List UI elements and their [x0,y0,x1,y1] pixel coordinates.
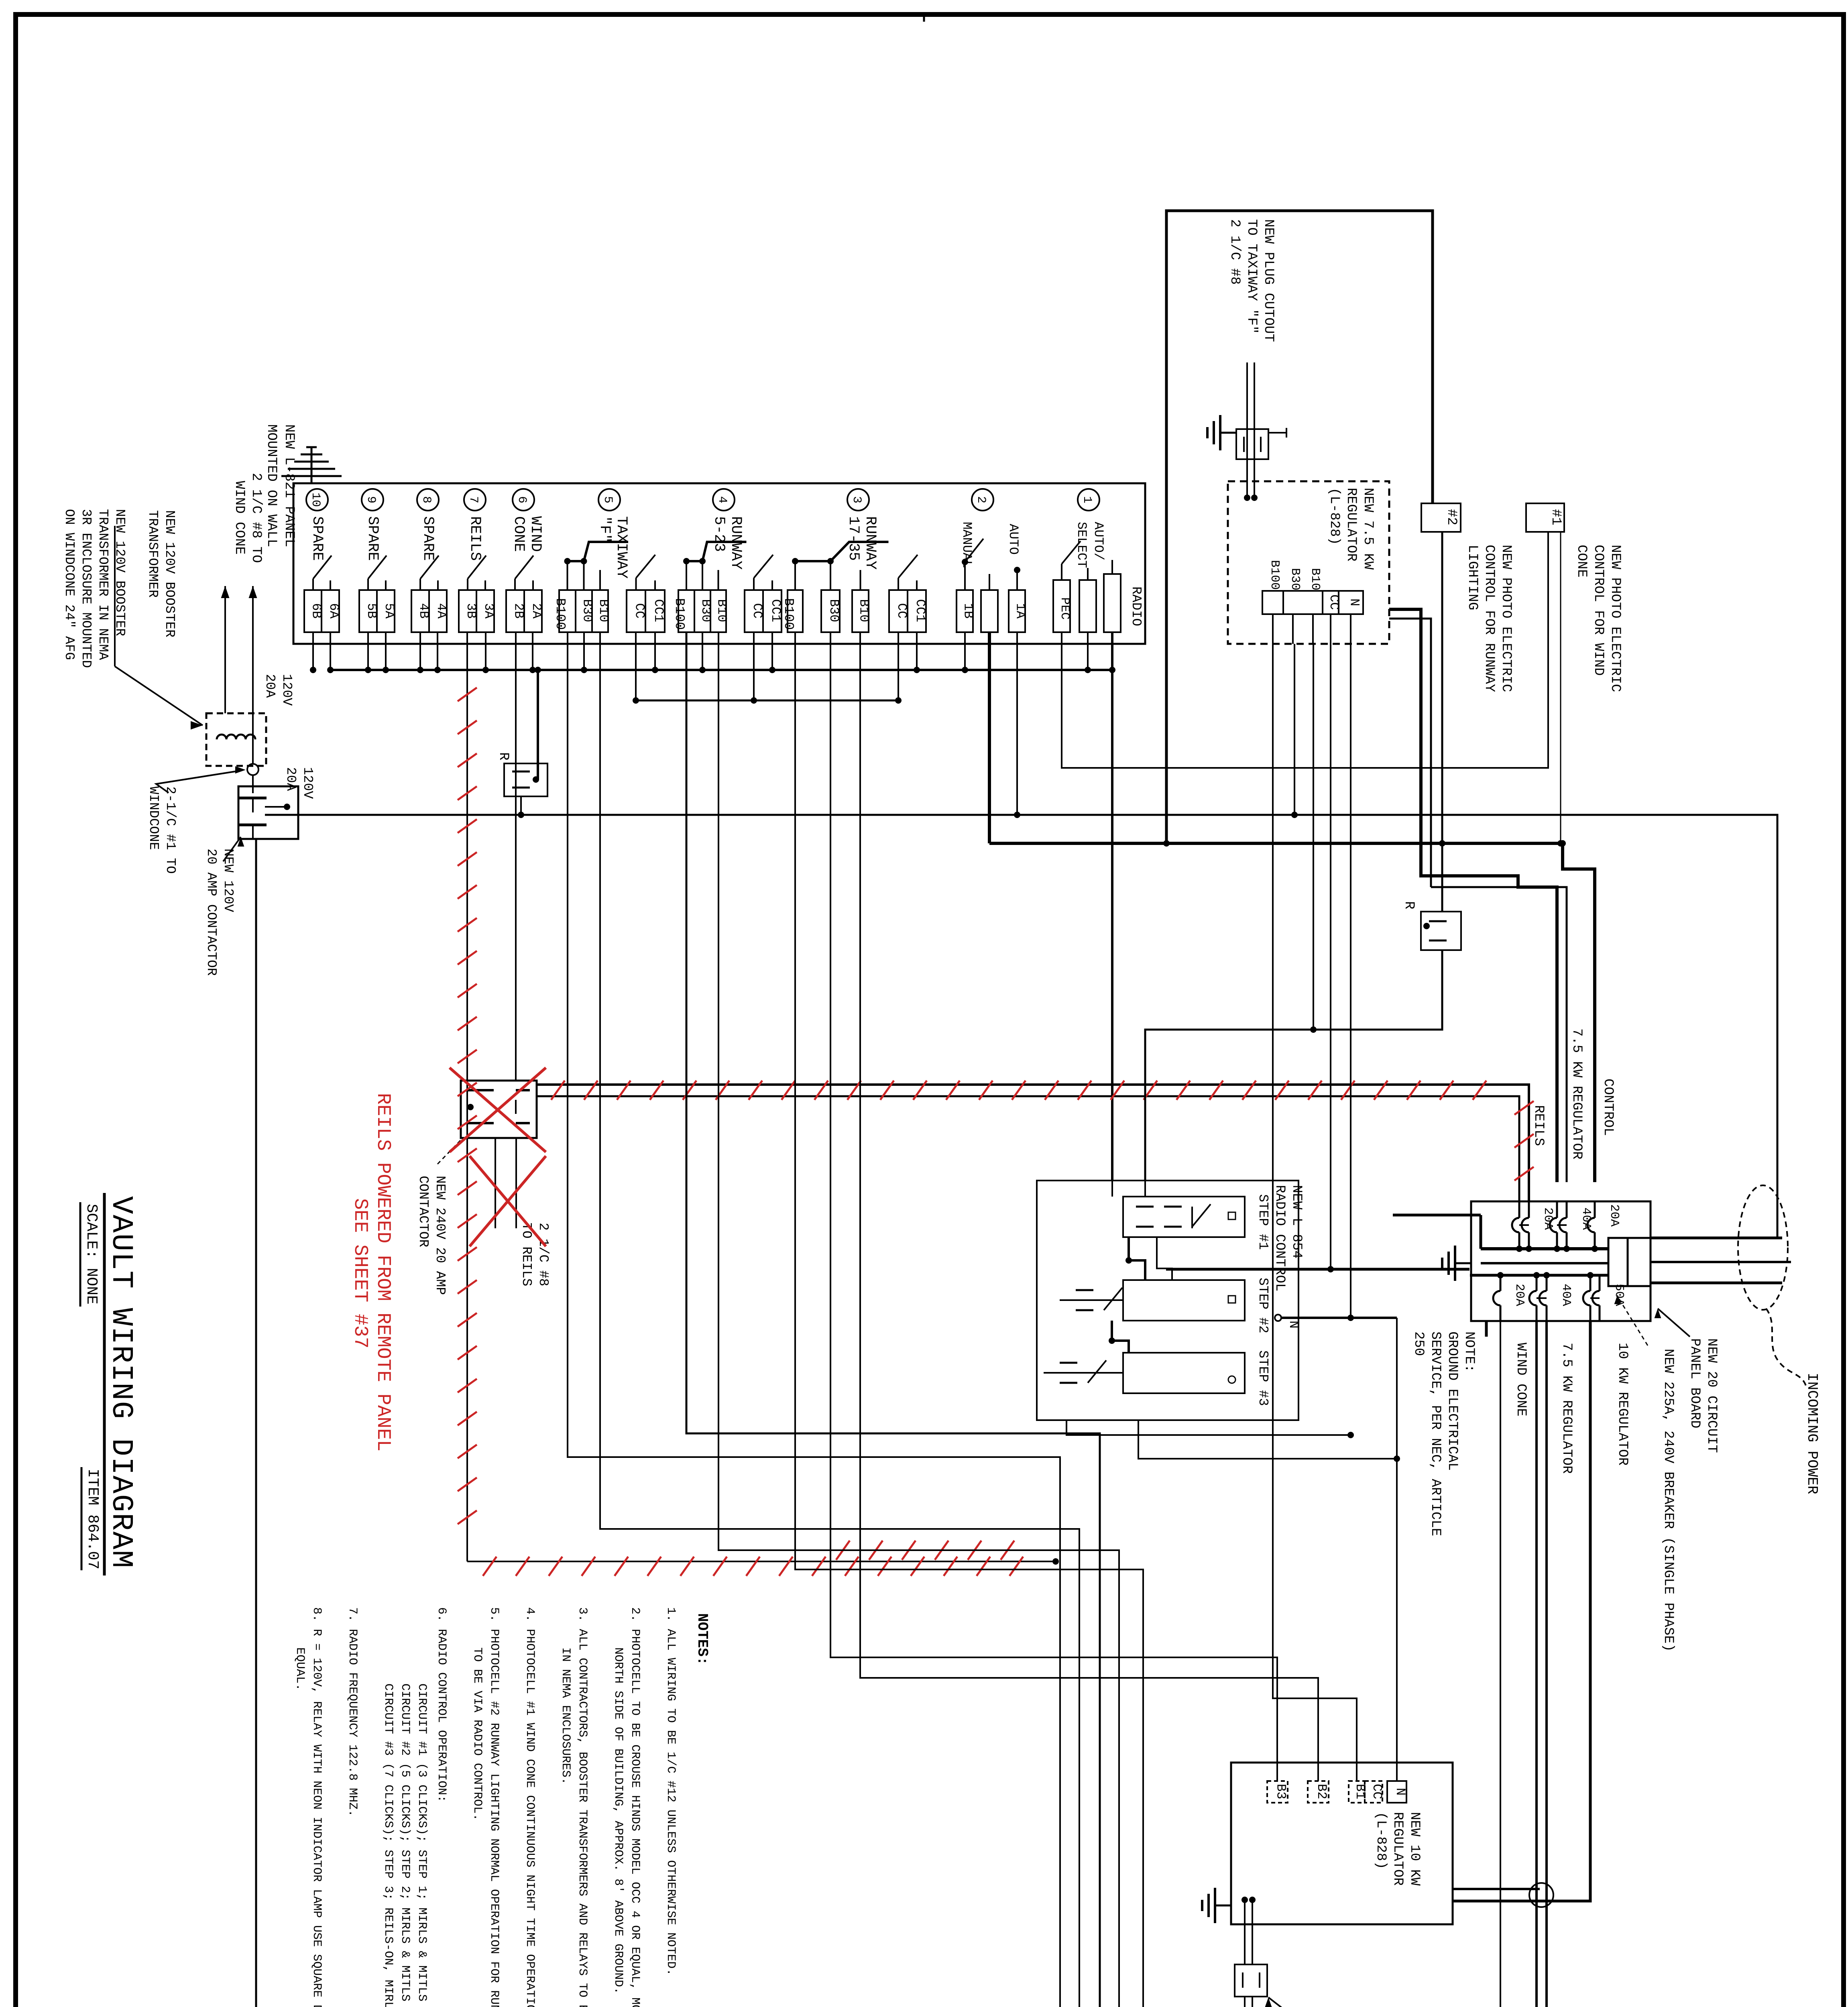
1A drop to 120V bus [1016,632,1018,815]
svg-text:120V: 120V [300,767,315,799]
svg-text:ON WINDCONE 24" AFG: ON WINDCONE 24" AFG [62,509,77,660]
step 3 contacts [1060,1362,1077,1364]
svg-text:B10: B10 [857,599,871,623]
svg-text:20 AMP CONTACTOR: 20 AMP CONTACTOR [204,849,219,976]
wire: runway17-35 B30 to 10KW B3 [830,632,1277,1781]
step 2 relay box [1123,1280,1245,1321]
svg-text:6: 6 [515,496,529,503]
svg-text:4: 4 [715,496,729,503]
10KW terminal B2 [1308,1781,1329,1803]
wire: taxiway B100 to bottom regulator [568,632,1060,2007]
svg-text:CONE: CONE [1574,545,1589,578]
svg-text:7.5 KW REGULATOR: 7.5 KW REGULATOR [1569,1028,1584,1159]
svg-text:STEP #2: STEP #2 [1256,1278,1270,1333]
svg-text:4A: 4A [434,603,449,619]
photocell #2 box [1421,503,1461,532]
svg-text:TO BE VIA RADIO CONTROL.: TO BE VIA RADIO CONTROL. [470,1647,484,1821]
svg-text:250: 250 [1411,1331,1426,1356]
svg-text:(L-828): (L-828) [1327,488,1342,545]
radio control enclosure [1037,1181,1298,1420]
svg-text:ITEM 864.07: ITEM 864.07 [84,1469,101,1569]
top feeder rectangle [1166,211,1433,843]
svg-text:20A: 20A [283,767,298,791]
svg-text:17-35: 17-35 [845,516,862,561]
wire: runway5-23 B100 to bottom regulator [686,632,1100,2007]
svg-text:SPARE: SPARE [309,516,326,561]
fold mark top [923,14,925,22]
windcone feed arrows [224,586,226,713]
svg-text:CONTACTOR: CONTACTOR [416,1176,431,1247]
svg-text:REILS: REILS [1531,1105,1546,1146]
red hatch: REILS vertical [458,688,477,701]
svg-text:GROUND ELECTRICAL: GROUND ELECTRICAL [1445,1331,1460,1471]
cutout arrows down [1244,1997,1246,2007]
red hatch: remote panel bus [551,1081,565,1100]
svg-text:INCOMING POWER: INCOMING POWER [1804,1373,1820,1494]
svg-text:IN NEMA ENCLOSURES.: IN NEMA ENCLOSURES. [559,1647,572,1785]
wind cone circuit to bottom bus [1500,1321,1501,2007]
svg-text:SCALE: NONE: SCALE: NONE [83,1204,100,1305]
svg-text:7. RADIO FREQUENCY 122.8 MHZ.: 7. RADIO FREQUENCY 122.8 MHZ. [346,1607,359,1817]
svg-text:TRANSFORMER IN NEMA: TRANSFORMER IN NEMA [96,509,110,660]
photocell #1 aux wire [1560,532,1561,843]
svg-text:CONTROL FOR RUNWAY: CONTROL FOR RUNWAY [1482,545,1497,692]
leader to node circle [156,771,240,793]
svg-text:NEW 7.5 KW: NEW 7.5 KW [1360,488,1376,570]
svg-text:20A: 20A [1512,1284,1526,1306]
svg-text:6. RADIO CONTROL OPERATION:: 6. RADIO CONTROL OPERATION: [435,1607,448,1802]
bus under panel (B-side) [332,669,1112,671]
svg-text:R: R [496,752,511,760]
main 120V bus from contactor [265,806,287,808]
svg-text:TO REILS: TO REILS [519,1223,534,1286]
svg-text:2A: 2A [529,603,544,619]
10KW cutout wires down [1244,1900,1246,1964]
svg-text:CIRCUIT #1 (3 CLICKS); STEP 1: CIRCUIT #1 (3 CLICKS); STEP 1; MIRLS & M… [415,1683,429,2007]
2B wire to REILS contactor [515,632,517,1081]
control bus drop (col2 center) [988,632,991,843]
incoming power squiggle [1766,1309,1806,1387]
red X over contactor [450,1068,546,1152]
red X over REILS label [470,1156,546,1246]
wire: photocell 2 to relay R [1441,843,1443,912]
wire: regulator B30 to 120V bus [1294,644,1295,815]
svg-text:REILS: REILS [466,516,483,561]
booster transformer box [206,713,266,766]
svg-text:1: 1 [1080,496,1094,503]
svg-text:2 1/C #8 TO: 2 1/C #8 TO [248,473,264,563]
red hatch: REILS drop at panel board [1514,1101,1534,1115]
svg-text:STEP #1: STEP #1 [1256,1194,1270,1250]
10KW terminals B1/CC [1349,1781,1365,1803]
svg-text:NEW PHOTO ELECTRIC: NEW PHOTO ELECTRIC [1498,545,1514,692]
breaker 40A (7.5KW bottom) [1536,1275,1538,1291]
panel breaker column 1 (AUTO/SELECT) [1078,489,1099,511]
svg-text:8: 8 [419,496,433,503]
svg-text:REILS POWERED FROM REMOTE PANE: REILS POWERED FROM REMOTE PANEL [372,1093,394,1451]
svg-text:N: N [1347,598,1362,606]
svg-text:B2: B2 [1314,1784,1329,1799]
svg-text:CC1: CC1 [768,599,783,623]
wire: runway17-35 B10 to 10KW B2 [860,632,1318,1781]
svg-text:PEC: PEC [1058,597,1072,620]
step 1 relay box [1123,1197,1245,1237]
svg-text:9: 9 [364,496,378,503]
panel breaker column 9 (SPARE) [362,489,383,511]
left long vertical to bottom bus (windcone neutral) [255,839,257,2007]
svg-text:CONTROL: CONTROL [1600,1079,1616,1136]
REILS wire from 3B [466,632,468,1561]
photocell #1 output to PEC [1062,532,1548,768]
svg-text:REGULATOR: REGULATOR [1343,488,1359,562]
svg-text:TO TAXIWAY "F": TO TAXIWAY "F" [1244,219,1259,334]
svg-text:CC: CC [632,603,647,619]
svg-text:2-1/C #1 TO: 2-1/C #1 TO [163,786,178,874]
svg-text:3A: 3A [481,603,496,619]
svg-text:8. R = 120V, RELAY WITH NEON I: 8. R = 120V, RELAY WITH NEON INDICATOR L… [310,1607,324,2007]
120V 20 amp contactor box [238,786,298,839]
svg-text:3R ENCLOSURE MOUNTED: 3R ENCLOSURE MOUNTED [79,509,94,668]
leader to booster transformer [114,526,116,666]
svg-text:20A: 20A [1607,1204,1621,1227]
RADIO drop to radio control [1111,632,1113,1181]
conduit junction circle [1529,1883,1553,1907]
svg-text:NEW L-821 PANEL: NEW L-821 PANEL [281,424,297,547]
svg-text:REGULATOR: REGULATOR [1390,1812,1405,1886]
svg-text:10: 10 [309,493,322,507]
wire: regulator CC to radio output [1330,644,1331,1269]
plug cutout box (taxiway F) [1236,429,1268,459]
incoming power lines [1651,1237,1782,1240]
svg-text:7: 7 [466,496,480,503]
10KW ground [1202,1888,1231,1923]
wire: regulator B10 to relay circuit [1313,644,1314,1030]
svg-text:RADIO CONTROL: RADIO CONTROL [1272,1185,1287,1291]
svg-text:20A: 20A [263,674,277,698]
svg-text:CONTROL FOR WIND: CONTROL FOR WIND [1591,545,1606,676]
step 2 contacts [1076,1289,1093,1291]
incoming feed bars [1481,1262,1608,1264]
wire: radio step 3 output [1138,1420,1397,1459]
svg-text:WIND CONE: WIND CONE [232,481,247,555]
svg-text:#1: #1 [1548,509,1563,525]
svg-text:LIGHTING: LIGHTING [1465,545,1480,610]
svg-text:WINDCONE: WINDCONE [146,786,161,850]
svg-text:TAXIWAY: TAXIWAY [613,516,630,578]
svg-text:NEW PHOTO ELECTRIC: NEW PHOTO ELECTRIC [1608,545,1623,692]
panel ground electrode [1442,1246,1471,1281]
svg-text:EQUAL.: EQUAL. [293,1647,307,1691]
top bus bar [1481,1247,1608,1250]
wire: runway5-23 B10 to bottom regulator [718,632,1119,2007]
svg-text:NEW 225A, 240V BREAKER (SINGLE: NEW 225A, 240V BREAKER (SINGLE PHASE) [1661,1349,1676,1652]
svg-text:SPARE: SPARE [419,516,436,561]
svg-text:SEE SHEET #37: SEE SHEET #37 [349,1198,371,1348]
svg-text:R: R [1401,901,1417,909]
svg-text:1. ALL WIRING TO BE 1/C #12 UN: 1. ALL WIRING TO BE 1/C #12 UNLESS OTHER… [664,1607,678,1976]
leader to contactor [223,837,241,861]
node circle below transformer [247,764,258,775]
wire: regulator N down [1350,644,1351,1318]
svg-text:SPARE: SPARE [364,516,381,561]
panel breaker column 10 (SPARE) [306,489,328,511]
breaker 40A (7.5KW regulator) [1556,1201,1558,1218]
svg-text:AUTO: AUTO [1006,524,1021,555]
svg-text:RADIO: RADIO [1129,586,1144,626]
CC drops to CC bus [635,632,637,700]
bus under panel (CC-side) [634,700,898,702]
radio control N node [1275,1315,1281,1321]
plug cutout (R/W 17-35) [1235,1964,1267,1997]
svg-text:5: 5 [601,496,615,503]
breaker 20A (control) [1594,1201,1596,1218]
svg-text:B100: B100 [781,598,796,630]
svg-text:TRANSFORMER: TRANSFORMER [145,510,160,598]
svg-text:WIND CONE: WIND CONE [1513,1343,1528,1417]
svg-text:B10: B10 [714,599,729,623]
svg-text:B30: B30 [826,599,841,623]
svg-text:NEW PLUG CUTOUT: NEW PLUG CUTOUT [1261,219,1276,342]
wire: radio N to 10KW N [1396,1318,1398,1781]
svg-text:2: 2 [974,496,988,503]
svg-text:40A: 40A [1559,1284,1573,1306]
svg-text:CC1: CC1 [651,599,666,623]
panel breaker column 7 (REILS) [464,489,486,511]
svg-text:NORTH SIDE OF BUILDING, APPROX: NORTH SIDE OF BUILDING, APPROX. 8' ABOVE… [611,1647,625,1994]
svg-text:2 1/C #8: 2 1/C #8 [1227,219,1242,285]
10KW regulator box [1231,1763,1453,1924]
breaker 20A (wind cone) [1500,1275,1502,1291]
svg-text:NEW 120V BOOSTER: NEW 120V BOOSTER [162,510,177,637]
svg-text:N: N [1393,1788,1408,1795]
svg-text:B100: B100 [672,598,687,630]
breaker 20A (REILS) [1518,1201,1520,1218]
radio control output to panel [1166,1268,1469,1271]
svg-text:CIRCUIT #2 (5 CLICKS); STEP 2: CIRCUIT #2 (5 CLICKS); STEP 2; MIRLS & M… [398,1683,412,2007]
svg-text:NOTE:: NOTE: [1461,1331,1477,1372]
service ground wire [1485,1321,1488,1337]
radio control internal wires [1144,1181,1146,1197]
taxiway F feed wires [1246,362,1248,498]
svg-text:NEW 20 CIRCUIT: NEW 20 CIRCUIT [1704,1338,1719,1453]
regulator terminal drops [1272,614,1274,644]
svg-text:5. PHOTOCELL #2 RUNWAY LIGHTIN: 5. PHOTOCELL #2 RUNWAY LIGHTING NORMAL O… [487,1607,501,2007]
regulator terminal strip [1262,591,1283,614]
svg-text:PANEL BOARD: PANEL BOARD [1687,1338,1702,1428]
svg-text:3. ALL CONTRACTORS, BOOSTER TR: 3. ALL CONTRACTORS, BOOSTER TRANSFORMERS… [576,1607,589,2007]
panel breaker column 5 (TAXIWAY "F") [598,489,620,511]
photocell #1 box [1526,503,1564,532]
wire: relay R to radio control [1145,950,1442,1181]
7.5KW regulator (top) box [1228,481,1389,644]
svg-text:NEW 120V: NEW 120V [221,849,236,912]
relay R (left) [504,763,547,796]
wire: taxiway B10 to bottom regulator [600,632,1079,2007]
REILS 240V contactor box [461,1081,537,1138]
panel neutral bar [1480,1215,1482,1249]
svg-text:B100: B100 [553,598,568,630]
svg-text:NOTES:: NOTES: [694,1613,710,1665]
svg-text:WIND: WIND [527,516,544,552]
svg-text:"F": "F" [596,516,613,543]
ground at taxiway plug cutout [1207,415,1236,450]
regulator output pair to panel board [1389,609,1557,1182]
svg-text:2 1/C #8: 2 1/C #8 [536,1223,551,1286]
svg-text:SERVICE, PER NEC, ARTICLE: SERVICE, PER NEC, ARTICLE [1428,1331,1443,1536]
svg-text:B3: B3 [1274,1784,1288,1799]
svg-text:VAULT WIRING DIAGRAM: VAULT WIRING DIAGRAM [104,1196,138,1569]
svg-text:1B: 1B [961,603,976,619]
svg-text:6A: 6A [326,603,341,619]
panel drop wires to bus [312,632,314,670]
svg-text:NEW L 854: NEW L 854 [1289,1185,1304,1259]
svg-text:CC1: CC1 [913,599,928,623]
control bus to photocells [989,842,1563,845]
relay R (right, radio) [1421,912,1461,950]
REILS powered from remote hatched bus pair [537,1085,1529,1201]
svg-text:B30: B30 [1288,568,1302,590]
svg-text:CONE: CONE [510,516,527,552]
svg-text:CIRCUIT #3 (7 CLICKS); STEP 3: CIRCUIT #3 (7 CLICKS); STEP 3; REILS-ON,… [381,1683,395,2007]
panel breaker column 3 (RUNWAY 17-35) [847,489,869,511]
panel breaker column 8 (SPARE) [417,489,439,511]
svg-text:2. PHOTOCELL TO BE CROUSE HIND: 2. PHOTOCELL TO BE CROUSE HINDS MODEL OC… [628,1607,642,2007]
10KW terminal N [1387,1781,1406,1803]
wire: radio step 2 output [1066,1420,1351,1435]
transformer coil [217,735,255,739]
svg-text:N: N [1286,1321,1301,1329]
svg-text:3: 3 [850,496,863,503]
svg-text:5-23: 5-23 [710,516,727,552]
red hatch: lower REILS run [483,1557,497,1576]
panel breaker column 4 (RUNWAY 5-23) [713,489,735,511]
wire: regulator B100 to 10KW B1 [1273,644,1357,1781]
svg-text:5A: 5A [382,603,397,619]
panel breaker column 2 (MANUAL/AUTO) [972,489,993,511]
L-821 panel enclosure [293,483,1145,644]
svg-text:AUTO/: AUTO/ [1091,522,1106,560]
wire: runway17-35 B100 to bottom regulator [795,632,1143,2007]
breaker 50A (10KW) [1590,1275,1592,1291]
svg-text:#2: #2 [1444,509,1459,525]
svg-text:NEW 240V 20 AMP: NEW 240V 20 AMP [433,1176,448,1295]
svg-text:10 KW REGULATOR: 10 KW REGULATOR [1615,1343,1630,1466]
step 3 relay box [1123,1353,1245,1393]
REILS contactor output pair (crossed out) [495,1138,496,1228]
photocell #2 output [1441,532,1443,843]
svg-text:B10: B10 [1308,568,1322,590]
svg-text:120V: 120V [279,674,294,706]
svg-text:MOUNTED ON WALL: MOUNTED ON WALL [264,424,279,547]
svg-text:B10: B10 [596,599,611,623]
10KW regulator feeder [1453,1321,1590,1901]
panel breaker column 6 (WIND CONE) [513,489,534,511]
col1 middle drop [1087,632,1089,670]
REILS lower hatched run [467,1561,1056,1562]
main breaker 225A box [1608,1238,1651,1286]
incoming power conduit ellipse [1738,1185,1788,1310]
wire: R relay to bus [520,796,522,815]
10KW terminal B3 [1267,1781,1288,1803]
svg-text:1A: 1A [1013,603,1028,619]
svg-text:B100: B100 [1268,560,1282,590]
20 circuit panel board [1471,1201,1651,1321]
svg-text:STEP #3: STEP #3 [1256,1350,1270,1406]
panel ground symbol [281,447,342,483]
svg-text:NEW 10 KW: NEW 10 KW [1407,1812,1422,1886]
svg-text:CC: CC [1370,1784,1384,1799]
svg-text:7.5 KW REGULATOR: 7.5 KW REGULATOR [1559,1343,1574,1474]
7.5KW bottom regulator feeder pair [1535,1321,1538,2007]
svg-text:4. PHOTOCELL #1 WIND CONE CONT: 4. PHOTOCELL #1 WIND CONE CONTINUOUS NIG… [523,1607,537,2007]
svg-text:(L-828): (L-828) [1373,1812,1388,1869]
